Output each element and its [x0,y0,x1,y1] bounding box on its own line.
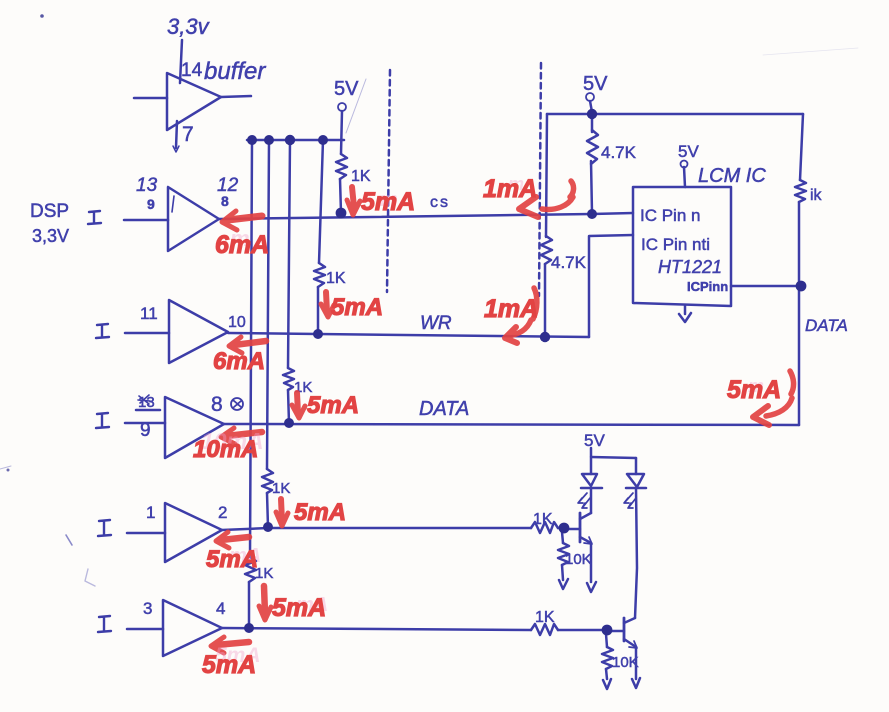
svg-text:IC Pin nti: IC Pin nti [641,235,710,254]
svg-text:4.7K: 4.7K [601,143,637,162]
svg-text:7: 7 [182,123,194,146]
svg-text:9: 9 [147,196,155,212]
svg-text:5mA: 5mA [206,546,258,573]
svg-text:DATA: DATA [419,398,469,420]
svg-text:13: 13 [136,175,158,196]
svg-text:1mA: 1mA [484,295,538,323]
svg-text:5mA: 5mA [331,294,383,321]
svg-text:ik: ik [810,187,823,204]
svg-text:9: 9 [140,420,151,441]
svg-text:8: 8 [211,393,223,416]
svg-text:5mA: 5mA [294,499,346,526]
svg-text:5mA: 5mA [202,651,256,679]
svg-text:LCM IC: LCM IC [698,165,766,187]
svg-text:DSP: DSP [30,201,69,222]
svg-text:11: 11 [140,304,158,323]
svg-text:10: 10 [228,314,246,331]
svg-text:14: 14 [181,60,203,81]
svg-text:1K: 1K [535,609,555,626]
svg-text:6mA: 6mA [215,231,269,259]
svg-text:3,3V: 3,3V [32,226,69,246]
svg-text:1K: 1K [326,270,346,287]
svg-text:3: 3 [143,599,152,618]
svg-text:1mA: 1mA [483,175,537,203]
svg-text:2: 2 [218,503,227,522]
svg-text:6mA: 6mA [213,348,265,375]
svg-text:10K: 10K [565,551,592,568]
svg-text:DATA: DATA [805,316,848,335]
svg-text:5mA: 5mA [727,376,781,404]
svg-text:buffer: buffer [204,58,266,85]
svg-text:4.7K: 4.7K [551,253,587,272]
svg-text:5V: 5V [334,78,359,100]
svg-text:13: 13 [138,394,155,411]
svg-text:10K: 10K [612,654,639,671]
svg-text:1K: 1K [533,511,553,528]
svg-text:5mA: 5mA [272,594,326,622]
svg-text:5V: 5V [584,431,605,450]
svg-text:10mA: 10mA [193,436,258,463]
svg-text:5V: 5V [583,73,608,95]
svg-text:HT1221: HT1221 [658,257,722,277]
svg-text:3,3v: 3,3v [167,14,211,39]
svg-text:1K: 1K [272,480,290,497]
svg-text:ICPinn: ICPinn [687,279,728,294]
svg-text:IC Pin n: IC Pin n [640,206,700,225]
svg-text:8: 8 [221,193,229,209]
svg-text:cs: cs [430,194,450,211]
svg-text:5mA: 5mA [307,392,359,419]
svg-text:5V: 5V [678,142,699,161]
svg-text:4: 4 [216,599,225,618]
svg-text:WR: WR [420,313,452,334]
svg-text:1: 1 [146,503,155,522]
svg-text:5mA: 5mA [361,188,415,216]
svg-text:1K: 1K [351,168,371,185]
